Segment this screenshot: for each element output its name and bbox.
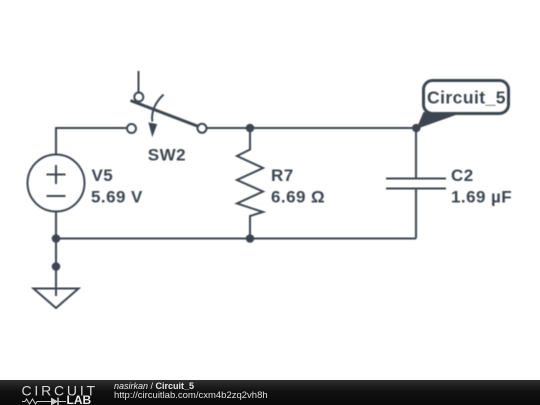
svg-text:R7: R7	[271, 166, 294, 185]
svg-text:6.69 Ω: 6.69 Ω	[271, 188, 325, 207]
svg-text:1.69 µF: 1.69 µF	[451, 188, 512, 207]
svg-text:C2: C2	[451, 166, 474, 185]
svg-text:Circuit_5: Circuit_5	[427, 88, 506, 108]
svg-text:V5: V5	[92, 166, 114, 185]
svg-text:SW2: SW2	[148, 146, 186, 165]
svg-text:LAB: LAB	[67, 393, 92, 405]
svg-text:5.69 V: 5.69 V	[91, 188, 143, 207]
